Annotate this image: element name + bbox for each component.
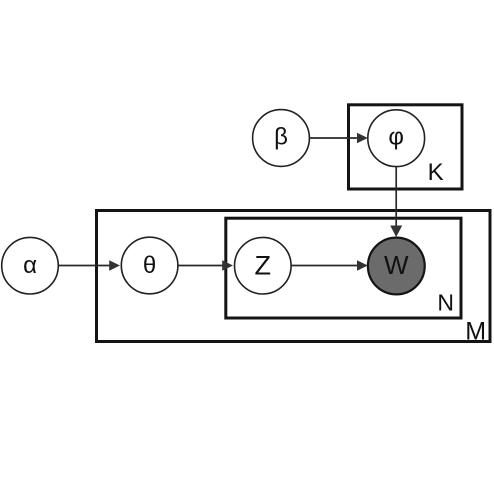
- svg-text:α: α: [23, 252, 37, 279]
- svg-text:M: M: [465, 317, 486, 345]
- svg-text:Z: Z: [255, 251, 272, 281]
- svg-text:θ: θ: [143, 252, 156, 279]
- svg-text:K: K: [428, 159, 444, 186]
- svg-text:W: W: [384, 250, 409, 280]
- svg-text:N: N: [437, 290, 454, 316]
- svg-text:φ: φ: [388, 123, 404, 150]
- svg-text:β: β: [274, 124, 288, 151]
